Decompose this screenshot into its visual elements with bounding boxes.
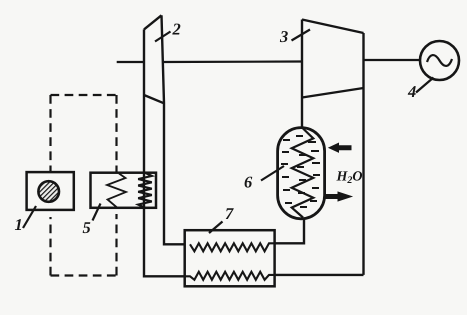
water outlet arrow (points right) [325, 192, 352, 201]
containment dashed box bottom edge [51, 274, 118, 276]
heater zigzag in box 5 [107, 174, 126, 208]
label 2 leader [155, 32, 171, 42]
pipe cooler bottom to regenerator row 1 right [275, 219, 304, 244]
svg-text:2: 2 [172, 20, 181, 39]
containment dashed box left edge upper [49, 95, 51, 172]
svg-text:6: 6 [244, 173, 253, 192]
compressor 2 right edge and pipe to regenerator row 1 [162, 15, 186, 244]
regenerator zigzag row 2 [185, 272, 275, 280]
label 1 leader [23, 206, 36, 228]
regenerator zigzag row 1 [190, 243, 275, 251]
svg-text:5: 5 [83, 218, 91, 237]
label 3 leader [292, 30, 311, 41]
svg-text:7: 7 [225, 204, 234, 223]
svg-text:3: 3 [279, 27, 288, 46]
turbine 3 top edge [302, 20, 364, 34]
pipe regenerator row 2 right to turbine pipe [275, 274, 364, 276]
shaft turbine to generator [364, 59, 420, 61]
generator 4 circle [420, 41, 459, 80]
containment dashed box left edge lower [49, 217, 51, 276]
shaft left stub [117, 61, 144, 63]
svg-text:4: 4 [407, 82, 416, 101]
svg-text:1: 1 [15, 215, 23, 234]
svg-text:H2O: H2O [336, 170, 363, 187]
regenerator 7 box [185, 230, 275, 286]
containment dashed box right edge lower [115, 214, 117, 276]
reactor 1 box [27, 172, 74, 210]
heat exchanger 5 box [91, 173, 157, 208]
shaft compressor to turbine [164, 60, 302, 63]
water inlet arrow (points left) [329, 143, 351, 152]
cooler coil [292, 129, 314, 218]
turbine 3 right edge and pipe down to regenerator line [362, 33, 364, 275]
label 7 leader [209, 222, 223, 234]
reactor 1 hatched circle [38, 181, 59, 202]
compressor 2 left edge and pipe through heater to regenerator row 2 [144, 29, 186, 276]
turbine 3 bottom edge [302, 88, 364, 98]
cooler 6 capsule [278, 128, 325, 219]
label 5 leader [93, 204, 101, 221]
water hatch dashes [281, 136, 320, 207]
compressor 2 bottom diagonal [144, 95, 164, 103]
containment dashed box right edge upper [115, 95, 117, 173]
label 6 leader [261, 166, 284, 181]
containment dashed box top edge [51, 94, 118, 96]
compressor 2 top edge [144, 15, 162, 29]
generator sine symbol [427, 55, 452, 66]
label 4 leader [416, 78, 434, 93]
coil in box 5 [138, 173, 152, 208]
turbine 3 left edge and pipe to cooler top [301, 20, 303, 129]
